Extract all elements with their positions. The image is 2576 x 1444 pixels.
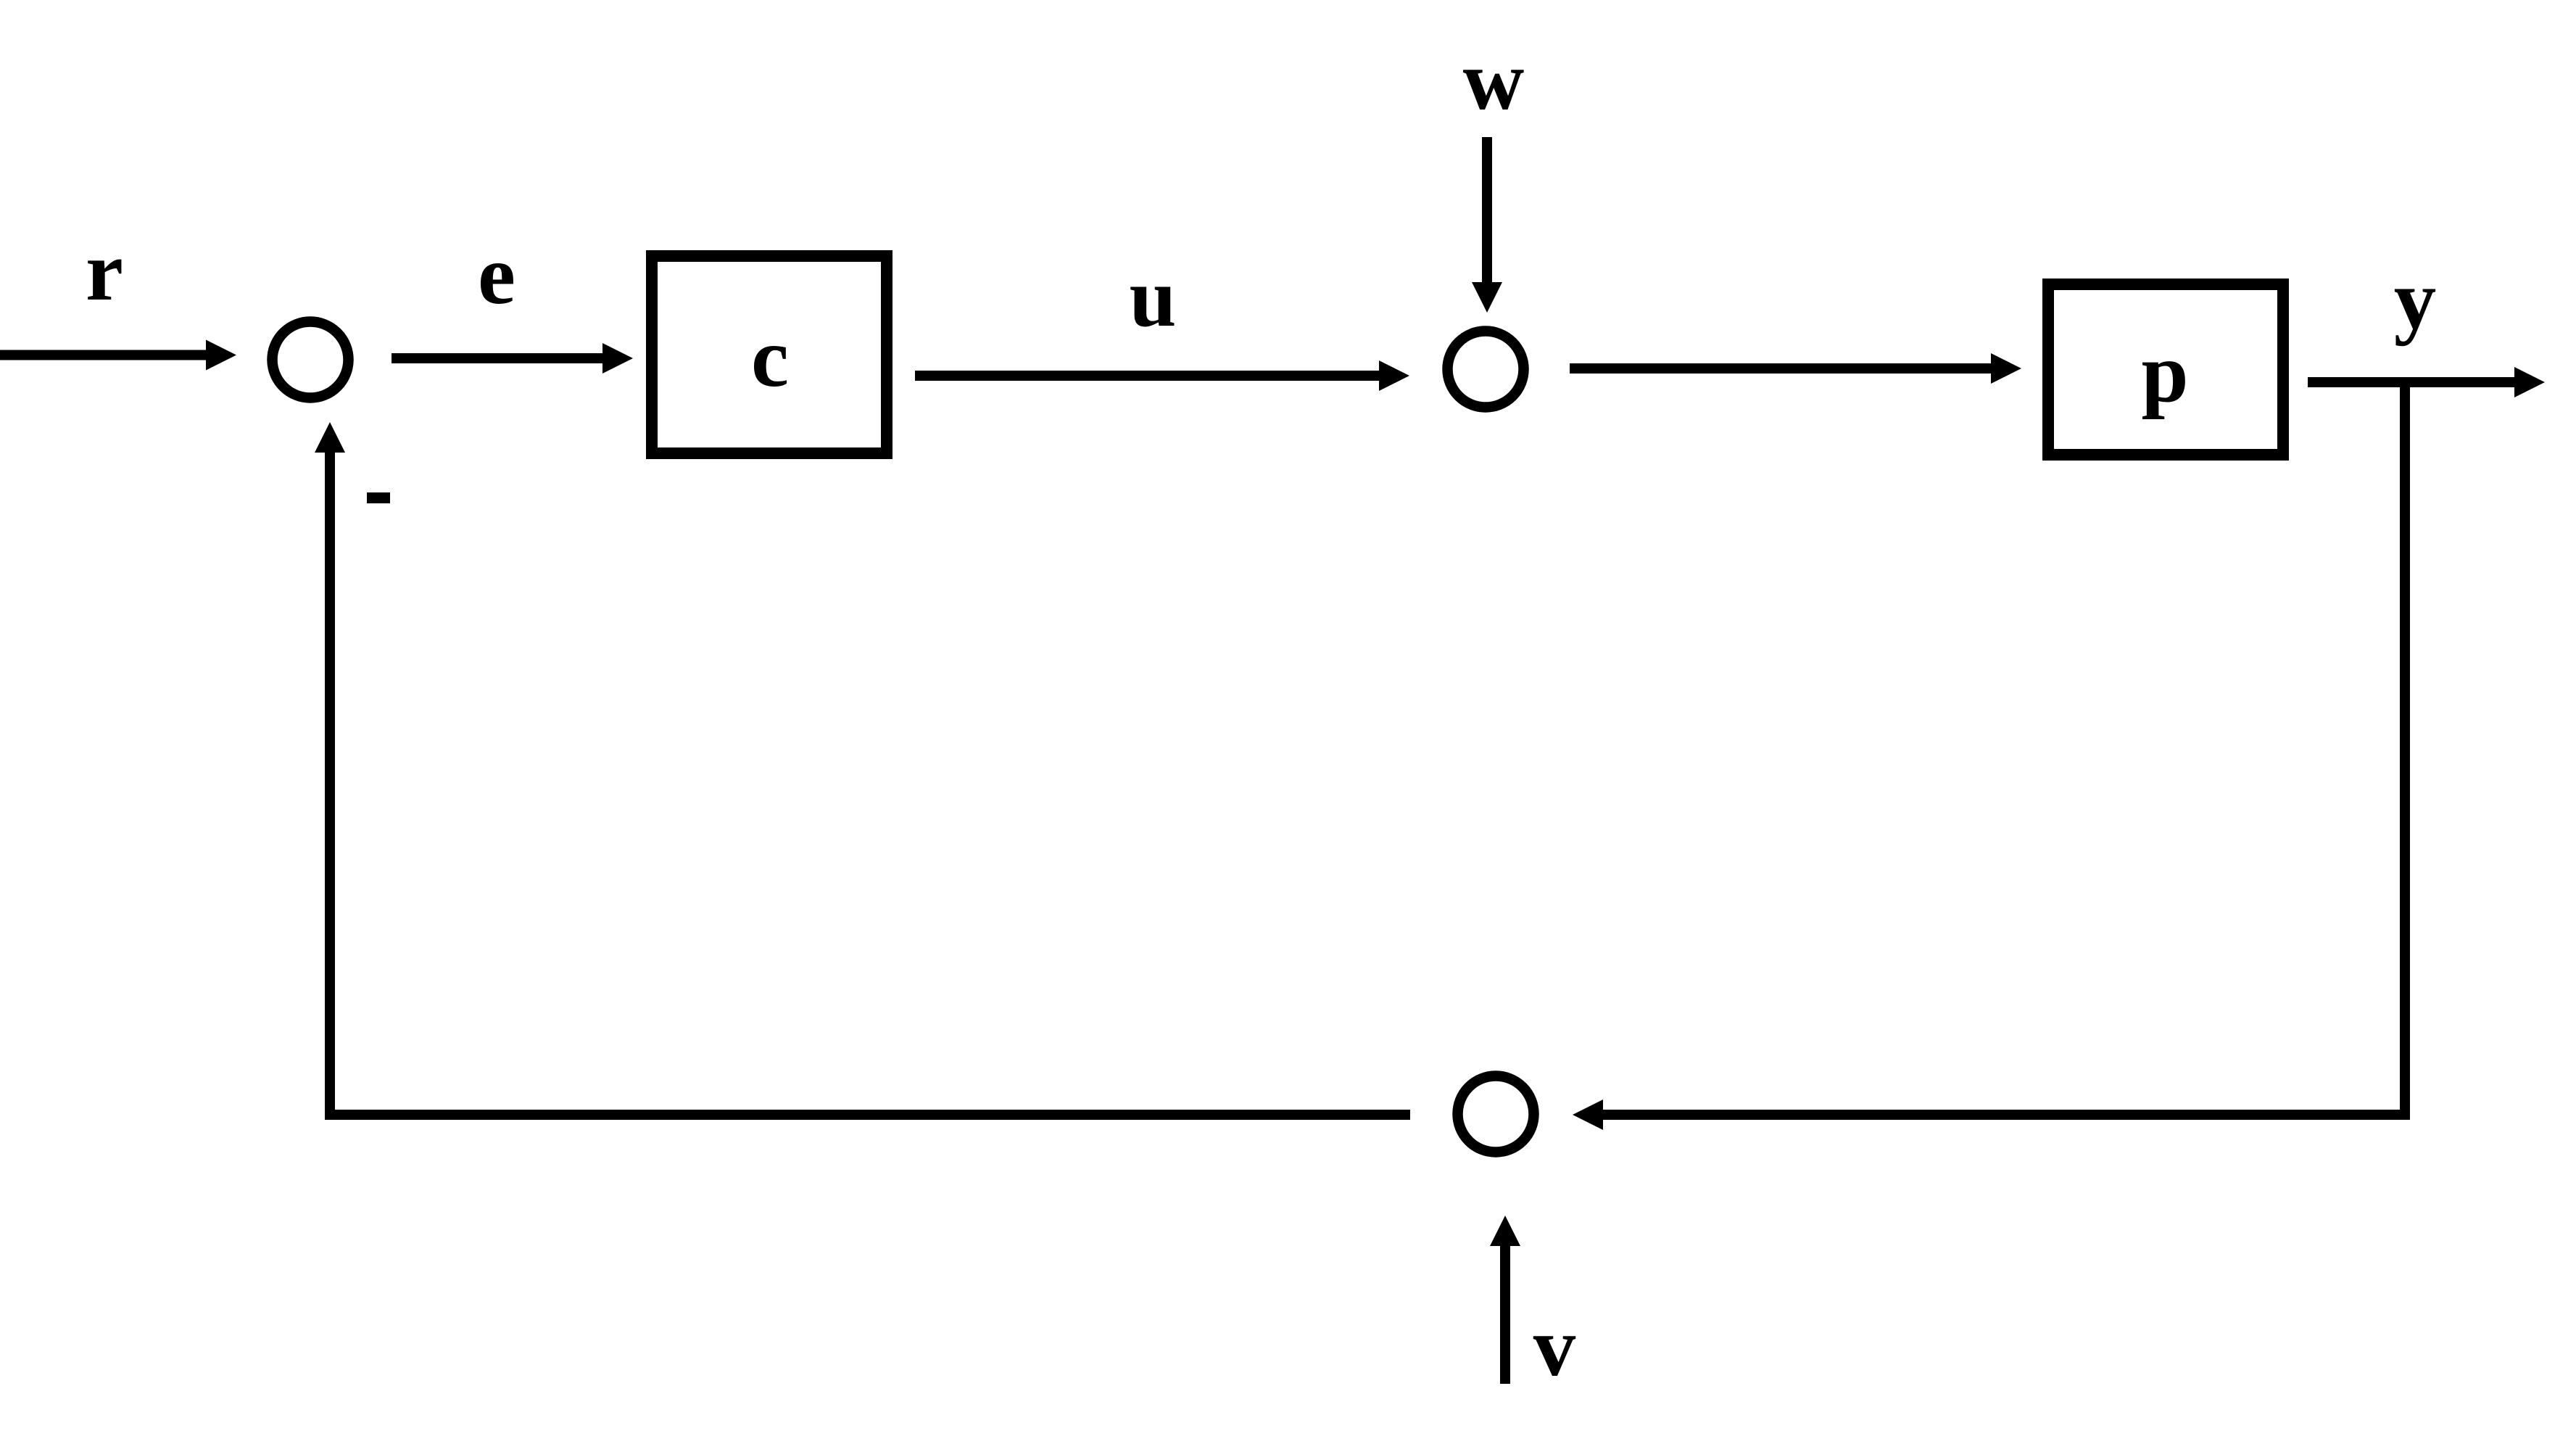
block p (plant) — [2048, 284, 2283, 455]
svg-text:y: y — [2394, 253, 2437, 347]
svg-text:p: p — [2141, 326, 2188, 420]
wire e (S1 to block c) — [392, 343, 633, 374]
block c (controller) — [652, 256, 887, 453]
summing junction S2 — [1448, 331, 1524, 408]
wire feedback left vertical segment (up into S1) — [315, 422, 345, 1120]
svg-text:r: r — [86, 225, 123, 318]
svg-text:w: w — [1463, 34, 1525, 128]
wire feedback bottom-right segment (branch to summing junction S3) — [1573, 1099, 2410, 1130]
wire S2 to block p — [1570, 353, 2021, 384]
wire u (block c to summing junction S2) — [915, 360, 1409, 391]
wire r (input arrow into summing junction S1) — [0, 340, 236, 371]
wire v (noise arrow into summing junction S3) — [1490, 1216, 1520, 1384]
wire w (disturbance arrow into summing junction S2) — [1472, 137, 1502, 313]
wire feedback bottom-left segment (S3 toward left corner) — [325, 1110, 1410, 1120]
wire branch down from y line — [2400, 382, 2410, 1120]
wire y (output arrow from block p) — [2308, 367, 2545, 397]
summing junction S3 — [1458, 1076, 1534, 1152]
label minus (negative feedback sign at S1) — [367, 492, 390, 503]
summing junction S1 — [273, 322, 349, 398]
svg-text:e: e — [478, 228, 515, 322]
svg-text:u: u — [1129, 251, 1176, 345]
svg-text:v: v — [1533, 1300, 1576, 1394]
svg-text:c: c — [751, 311, 789, 405]
